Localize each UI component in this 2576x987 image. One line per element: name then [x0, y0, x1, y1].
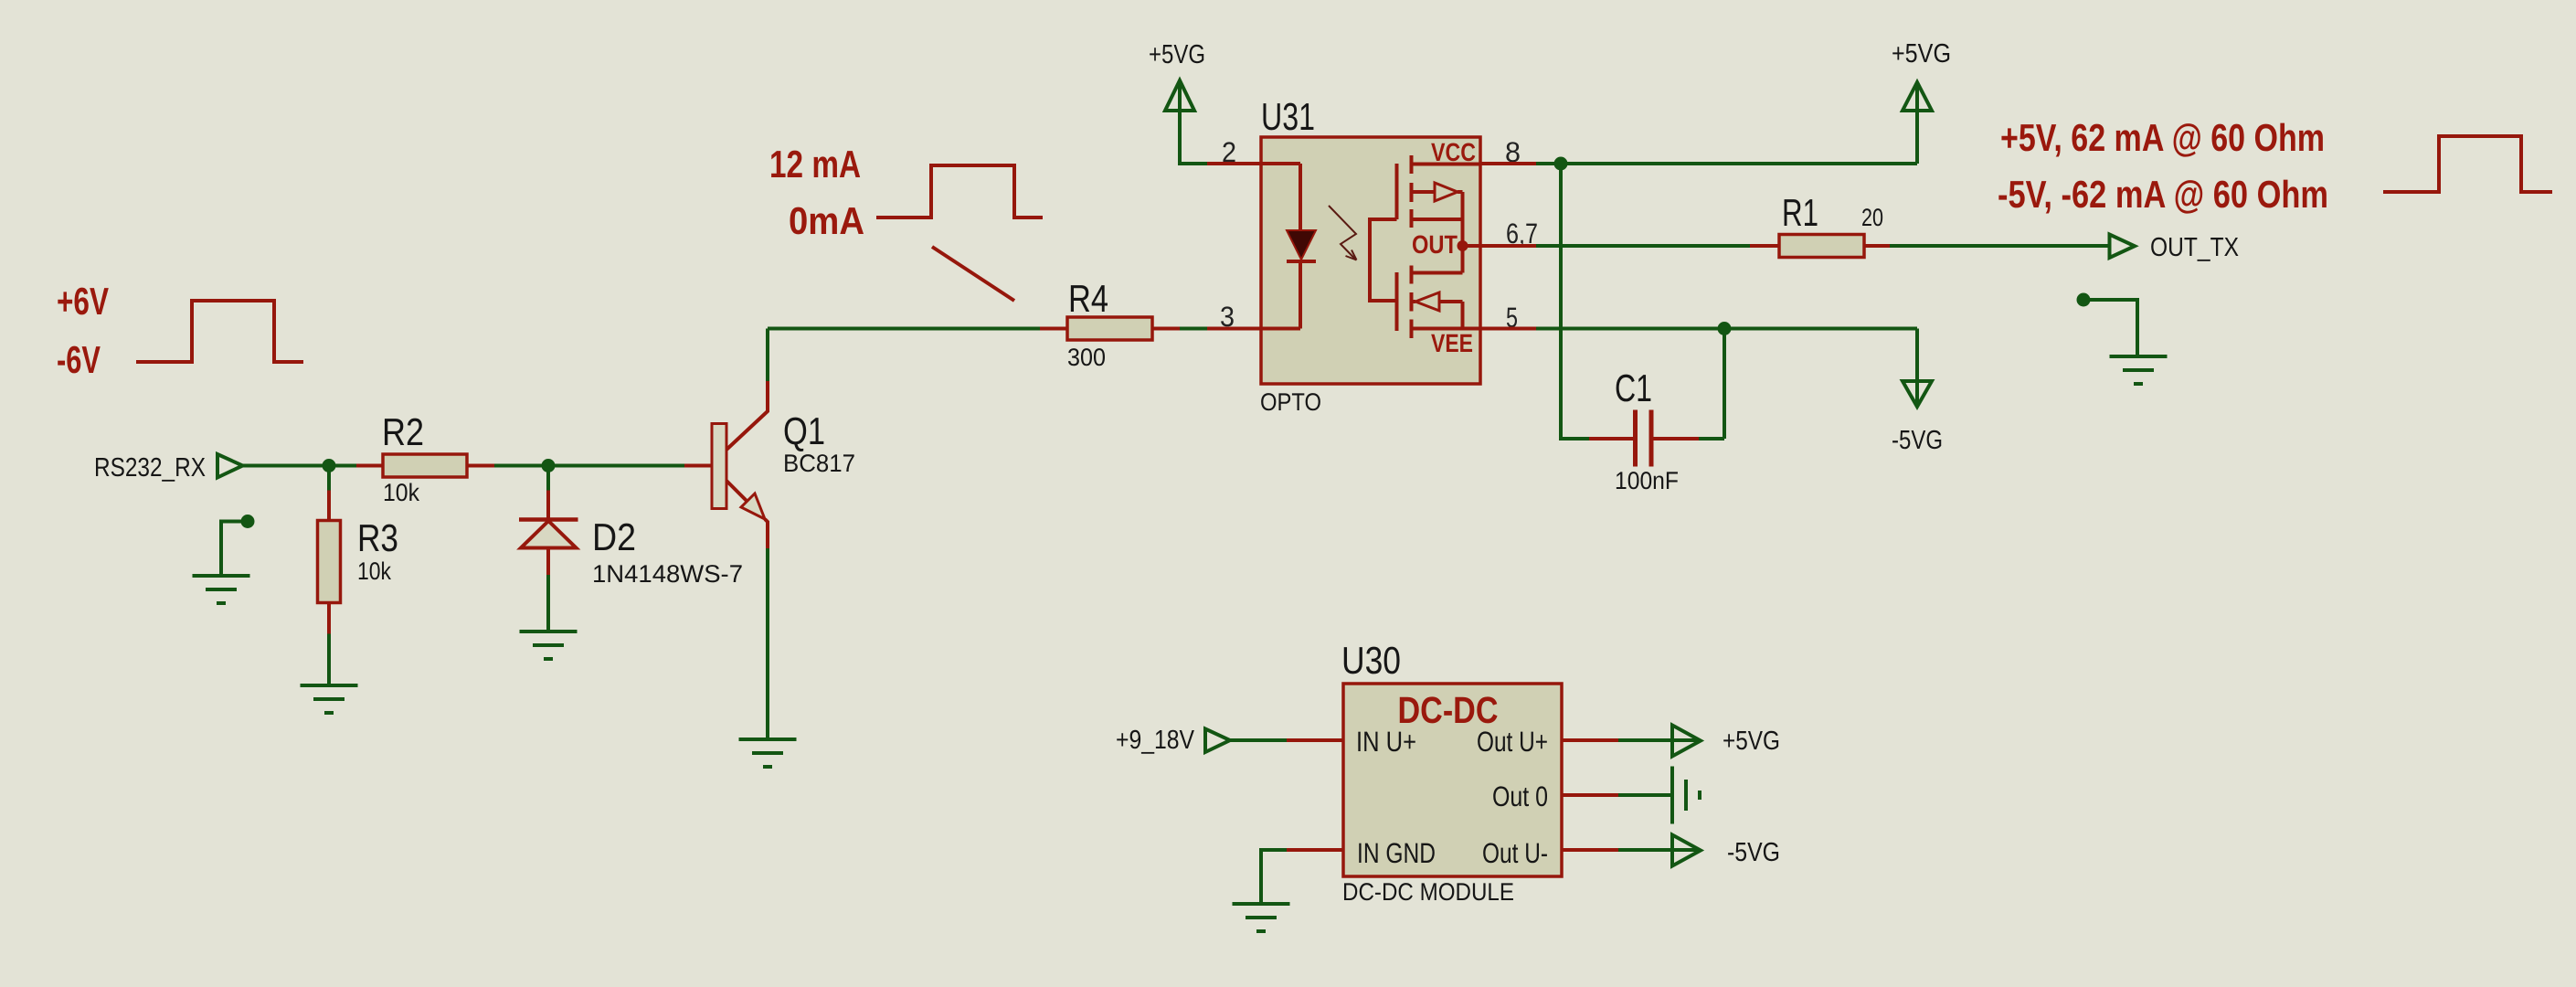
- wire pin6,7 to R1: [1480, 244, 1536, 248]
- node junction at D2: [542, 459, 556, 472]
- U31 gate bracket: [1370, 219, 1397, 301]
- svg-text:-5V, -62 mA @ 60 Ohm: -5V, -62 mA @ 60 Ohm: [1998, 173, 2328, 216]
- svg-text:U31: U31: [1261, 95, 1315, 138]
- svg-text:-6V: -6V: [57, 338, 101, 381]
- svg-text:Q1: Q1: [783, 409, 825, 452]
- capacitor C1: [1561, 164, 1589, 439]
- U31 OUT node dot: [1458, 240, 1468, 251]
- svg-text:OPTO: OPTO: [1260, 388, 1321, 416]
- ground rotated at Out 0: [1672, 767, 1700, 824]
- wire U30 Out 0: [1562, 793, 1618, 797]
- wire R1 to OUT_TX: [1890, 244, 2109, 248]
- annotation waveform output: [2383, 136, 2552, 192]
- svg-text:+5V, 62 mA @ 60 Ohm: +5V, 62 mA @ 60 Ohm: [2000, 116, 2325, 159]
- svg-text:Out U-: Out U-: [1482, 837, 1548, 869]
- svg-text:R2: R2: [382, 410, 424, 453]
- svg-text:20: 20: [1861, 204, 1883, 231]
- svg-text:3: 3: [1220, 301, 1235, 333]
- wire pin5: [1480, 327, 1536, 331]
- power flag +5VG out: [1672, 726, 1701, 757]
- resistor R4: [1040, 317, 1180, 340]
- ground under Q1: [739, 739, 797, 767]
- U31 LED: [1261, 164, 1316, 329]
- node junction pin5/C1: [1718, 322, 1732, 335]
- power -5VG arrow: [1915, 329, 1919, 407]
- resistor R1: [1750, 235, 1890, 258]
- diode D2: [519, 466, 578, 632]
- svg-text:U30: U30: [1341, 639, 1401, 682]
- svg-text:BC817: BC817: [783, 450, 855, 477]
- svg-text:R1: R1: [1782, 191, 1818, 234]
- U31 mosfet lower: [1397, 266, 1481, 339]
- U31 light zigzag: [1329, 206, 1356, 260]
- svg-text:RS232_RX: RS232_RX: [94, 453, 206, 483]
- svg-text:IN GND: IN GND: [1357, 837, 1436, 869]
- wire U30 Out U+: [1562, 738, 1618, 742]
- svg-text:10k: 10k: [357, 557, 391, 585]
- svg-text:Out 0: Out 0: [1492, 780, 1548, 812]
- svg-text:2: 2: [1222, 136, 1236, 168]
- ground under D2: [520, 631, 578, 659]
- svg-text:12 mA: 12 mA: [769, 143, 861, 186]
- svg-text:300: 300: [1067, 344, 1106, 371]
- svg-text:Out U+: Out U+: [1477, 726, 1548, 758]
- svg-text:OUT: OUT: [1412, 230, 1458, 259]
- svg-text:+5VG: +5VG: [1149, 40, 1205, 69]
- svg-text:VCC: VCC: [1431, 138, 1476, 166]
- wire U30 IN GND to ground: [1287, 848, 1343, 852]
- resistor R3: [318, 466, 341, 686]
- U31 mosfet upper: [1397, 155, 1481, 273]
- svg-text:10k: 10k: [383, 479, 419, 506]
- ground stub with node right: [2077, 293, 2091, 307]
- terminal RS232_RX: [217, 454, 243, 478]
- svg-text:VEE: VEE: [1431, 329, 1473, 357]
- wire Q1 collector to R4: [766, 329, 769, 382]
- wire to U30 IN U+: [1230, 738, 1287, 742]
- svg-text:DC-DC MODULE: DC-DC MODULE: [1342, 878, 1514, 906]
- svg-text:0mA: 0mA: [789, 199, 864, 242]
- wire R4 to U31 pin3: [1180, 327, 1207, 331]
- ground: [193, 576, 250, 603]
- svg-text:-5VG: -5VG: [1892, 426, 1943, 455]
- svg-text:R3: R3: [357, 516, 398, 559]
- resistor R2: [356, 454, 494, 477]
- dc-dc module U30: [1343, 684, 1562, 876]
- terminal OUT_TX: [2110, 235, 2136, 259]
- wire R2 to Q1 base: [494, 464, 684, 468]
- svg-text:1N4148WS-7: 1N4148WS-7: [592, 560, 743, 588]
- svg-text:IN U+: IN U+: [1356, 726, 1416, 758]
- ground under R3: [301, 685, 358, 713]
- power flag -5VG out: [1672, 835, 1701, 866]
- power +5VG right: [1915, 84, 1919, 164]
- svg-text:R4: R4: [1068, 277, 1108, 320]
- ground: [2110, 356, 2168, 384]
- svg-text:C1: C1: [1615, 366, 1652, 409]
- svg-text:+5VG: +5VG: [1723, 727, 1780, 756]
- svg-text:D2: D2: [592, 515, 636, 558]
- svg-text:+6V: +6V: [57, 280, 109, 323]
- opto-coupler U31: [1261, 137, 1480, 384]
- svg-text:+9_18V: +9_18V: [1116, 726, 1195, 755]
- wire RS232_RX to R2: [243, 464, 357, 468]
- ground under U30: [1233, 904, 1290, 931]
- svg-text:-5VG: -5VG: [1727, 838, 1780, 867]
- node junction at R3: [323, 459, 336, 472]
- svg-text:+5VG: +5VG: [1892, 39, 1951, 69]
- wire to U31 pin2: [1207, 162, 1261, 165]
- node junction pin8: [1554, 157, 1568, 171]
- annotation waveform +6V/-6V: [136, 301, 303, 362]
- ground stub with node near RS232_RX: [241, 515, 255, 528]
- svg-text:OUT_TX: OUT_TX: [2150, 233, 2239, 262]
- annotation waveform 12mA: [876, 165, 1043, 218]
- wire pin8: [1480, 162, 1536, 165]
- annotation callout line: [932, 247, 1014, 301]
- wire U30 Out U-: [1562, 848, 1618, 852]
- svg-text:100nF: 100nF: [1615, 467, 1679, 494]
- transistor Q1: [684, 381, 768, 739]
